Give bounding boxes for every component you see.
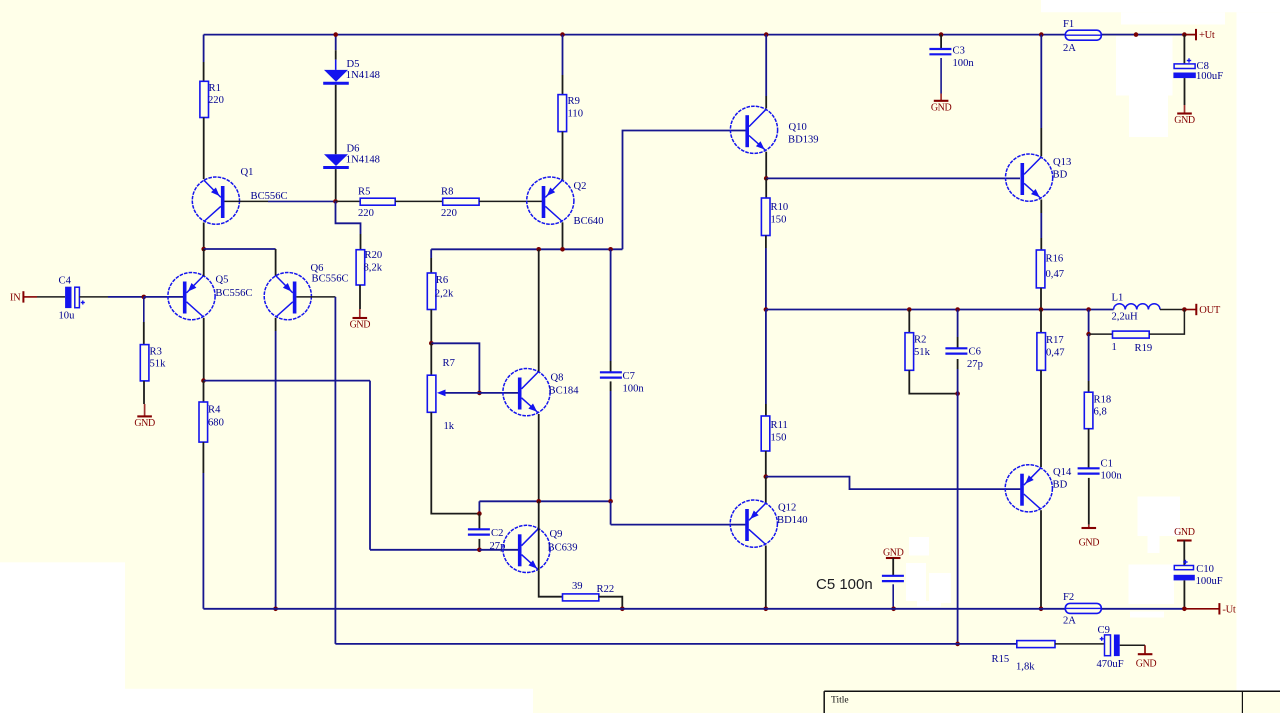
diode D5 xyxy=(335,35,337,51)
wire -Ut rail after F2 xyxy=(1101,608,1184,610)
wire Q9 emitter to R22 xyxy=(539,571,563,597)
node Q9 collector xyxy=(536,499,541,504)
pin R10 top xyxy=(765,178,767,198)
svg-text:R19: R19 xyxy=(1135,343,1153,354)
svg-text:Q12: Q12 xyxy=(778,503,796,514)
svg-text:150: 150 xyxy=(771,433,787,444)
resistor R5 xyxy=(360,198,395,205)
wire node to R5 xyxy=(336,200,361,202)
svg-text:BD: BD xyxy=(1053,480,1068,491)
capacitor C7 xyxy=(610,249,612,361)
node R11/Q12 emitter xyxy=(764,474,769,479)
node C2 bottom / Q9 base wire xyxy=(477,548,482,553)
node R19/R18 xyxy=(1086,332,1091,337)
wire R19 left xyxy=(1089,333,1113,335)
resistor R16 xyxy=(1036,250,1045,288)
node input/R3 xyxy=(142,295,147,300)
wire Q6 collector top xyxy=(275,249,277,276)
svg-text:1: 1 xyxy=(1112,342,1117,353)
svg-text:-Ut: -Ut xyxy=(1222,604,1235,615)
wire Q14 collector down xyxy=(1040,510,1042,609)
wire Q1/Q5 node to Q6 xyxy=(204,248,276,250)
wire Q8 emitter down xyxy=(538,414,540,501)
wire Q2 emitter down to VAS rail xyxy=(562,222,564,249)
white patch below top-right margin xyxy=(1121,12,1225,24)
svg-text:BD: BD xyxy=(1053,170,1068,181)
svg-text:100n: 100n xyxy=(953,58,975,69)
svg-text:Q5: Q5 xyxy=(216,275,229,286)
wire top rail right of F1 xyxy=(1102,34,1197,36)
port OUT xyxy=(1195,304,1197,315)
wire R11 bottom xyxy=(765,451,767,477)
wire Q12 emitter up xyxy=(765,477,767,503)
wire pot wiper xyxy=(444,392,479,394)
svg-text:R18: R18 xyxy=(1094,395,1112,406)
svg-text:R10: R10 xyxy=(771,202,789,213)
ground below C1 xyxy=(1088,525,1090,528)
node VAS/C7 xyxy=(608,247,613,252)
transistor Q1 xyxy=(192,177,239,224)
ground below R20 xyxy=(359,309,361,318)
svg-text:BD139: BD139 xyxy=(788,135,819,146)
wire R2 bottom xyxy=(909,370,957,393)
pin R6 bottom xyxy=(430,310,432,344)
svg-text:R1: R1 xyxy=(209,83,221,94)
resistor R2 xyxy=(908,310,910,333)
pin R20 top xyxy=(360,234,362,250)
wire R7 bottom xyxy=(431,412,479,513)
wire Q13 collector up xyxy=(1040,35,1042,128)
resistor R8 xyxy=(443,198,479,205)
wire Q1 base to node A xyxy=(225,200,269,202)
ground below C8 xyxy=(1184,105,1186,114)
node wiper/Q8 base xyxy=(477,391,482,396)
capacitor C8 xyxy=(1183,35,1185,64)
svg-text:D5: D5 xyxy=(347,59,360,70)
svg-text:Q13: Q13 xyxy=(1053,157,1071,168)
node D6/R5/R20/Q1 base xyxy=(333,199,338,204)
wire R6 node to wiper column xyxy=(431,343,479,393)
white patch above C8 GND xyxy=(1129,96,1168,138)
wire R17 bottom to Q14 xyxy=(1040,370,1042,467)
svg-text:39: 39 xyxy=(572,581,583,592)
node OUT/C6 xyxy=(955,307,960,312)
wire -Ut port lead xyxy=(1184,608,1219,610)
capacitor C3 xyxy=(940,35,942,49)
pin R1 bottom to Q1 xyxy=(203,118,205,180)
pin C7 bottom xyxy=(610,381,612,391)
white patch bottom left xyxy=(0,562,125,713)
resistor R22 xyxy=(563,594,599,601)
wire to Q9 base xyxy=(479,549,519,551)
resistor R17 xyxy=(1040,310,1042,333)
junction dot rail at C8 xyxy=(1182,32,1187,37)
white blob above C10 xyxy=(1138,497,1181,537)
wire Q5 collector node right xyxy=(204,380,371,382)
wire Q8 base xyxy=(479,392,518,394)
node OUT rail left xyxy=(764,307,769,312)
wire R8 to Q2 base xyxy=(479,200,545,202)
svg-text:R17: R17 xyxy=(1046,335,1064,346)
svg-text:F1: F1 xyxy=(1063,19,1074,30)
inductor L1 xyxy=(1114,304,1160,310)
resistor R6 xyxy=(427,273,436,310)
transistor Q5 xyxy=(168,273,215,320)
white spot behind C5 text xyxy=(825,574,838,593)
resistor R11 xyxy=(761,416,770,451)
wire Q5 collector down xyxy=(203,318,205,381)
svg-text:C9: C9 xyxy=(1098,625,1110,636)
resistor R10 xyxy=(761,198,770,236)
svg-text:R8: R8 xyxy=(441,187,453,198)
wire R16 bottom to OUT rail xyxy=(1040,288,1042,310)
wire C4 to input node xyxy=(79,296,108,298)
svg-text:6,8: 6,8 xyxy=(1094,407,1107,418)
wire Q9 collector up xyxy=(538,501,540,571)
transistor Q12 xyxy=(730,500,777,547)
svg-text:51k: 51k xyxy=(914,347,931,358)
svg-text:1N4148: 1N4148 xyxy=(346,155,380,166)
svg-text:GND: GND xyxy=(134,418,155,429)
svg-text:220: 220 xyxy=(358,208,374,219)
ground below R3 xyxy=(144,404,146,416)
capacitor C10 xyxy=(1174,566,1193,570)
junction dot top rail at D5 xyxy=(333,32,338,37)
resistor R1 xyxy=(200,81,209,117)
wire R6 top corner xyxy=(430,249,432,258)
svg-text:R20: R20 xyxy=(365,250,383,261)
wire R1 top xyxy=(203,35,205,62)
svg-text:2,2k: 2,2k xyxy=(435,289,454,300)
svg-text:R4: R4 xyxy=(208,405,221,416)
svg-text:BC556C: BC556C xyxy=(215,288,252,299)
node Q14 on -Ut rail xyxy=(1039,607,1044,612)
pin D6 bottom xyxy=(335,169,337,199)
svg-text:150: 150 xyxy=(771,215,787,226)
svg-text:1,8k: 1,8k xyxy=(1016,662,1035,673)
svg-text:L1: L1 xyxy=(1112,293,1124,304)
wire R10 bottom to OUT rail xyxy=(765,236,767,249)
diode D6 xyxy=(324,154,348,166)
svg-text:OUT: OUT xyxy=(1199,305,1221,316)
node feedback/rail2 xyxy=(955,642,960,647)
svg-text:C6: C6 xyxy=(969,347,981,358)
svg-text:C5 100n: C5 100n xyxy=(816,576,873,593)
wire IN lead xyxy=(23,296,37,298)
capacitor C6 xyxy=(957,310,959,338)
white margin top right xyxy=(1041,0,1280,12)
node C5 on -Ut rail xyxy=(891,607,896,612)
wire OUT port lead xyxy=(1184,309,1195,311)
wire to Q12 base xyxy=(611,524,746,526)
svg-text:R2: R2 xyxy=(914,335,926,346)
svg-text:680: 680 xyxy=(208,418,224,429)
svg-text:C4: C4 xyxy=(59,276,72,287)
wire Q13 emitter down xyxy=(1040,200,1042,214)
wire Q10 collector up xyxy=(765,35,767,96)
ground right of C9 xyxy=(1144,645,1146,654)
capacitor C2 xyxy=(468,528,490,530)
pin R3 bottom xyxy=(143,381,145,404)
svg-text:R6: R6 xyxy=(436,275,448,286)
wire R19 branch left xyxy=(1088,310,1090,335)
pin C8 bottom xyxy=(1184,78,1186,105)
resistor R4 xyxy=(199,402,208,442)
white patch right of F1 xyxy=(1116,37,1173,96)
svg-text:100uF: 100uF xyxy=(1196,576,1223,587)
capacitor C5 xyxy=(882,575,904,577)
svg-text:220: 220 xyxy=(208,95,224,106)
svg-text:C7: C7 xyxy=(623,371,635,382)
svg-text:F2: F2 xyxy=(1063,592,1074,603)
svg-text:Q8: Q8 xyxy=(551,373,564,384)
pin R7 top xyxy=(430,343,432,375)
wire Q6 base right xyxy=(296,296,335,298)
resistor R3 xyxy=(140,345,149,381)
pin C5 bottom xyxy=(892,584,894,609)
svg-text:GND: GND xyxy=(931,102,952,113)
resistor R18 xyxy=(1088,334,1090,381)
wire Q8 collector up xyxy=(538,249,540,371)
pin R3 top xyxy=(143,322,145,345)
svg-text:0,47: 0,47 xyxy=(1046,269,1065,280)
resistor R9 xyxy=(562,35,564,75)
node OUT/L1-R19-R18 xyxy=(1086,307,1091,312)
OUT rail xyxy=(766,309,1114,311)
node C6 bottom/R2 xyxy=(955,391,960,396)
svg-text:2A: 2A xyxy=(1063,43,1076,54)
node Q6 collector on -Ut rail xyxy=(273,607,278,612)
svg-text:R9: R9 xyxy=(568,96,580,107)
transistor Q6 xyxy=(264,273,311,320)
node VAS/Q2 xyxy=(560,247,565,252)
white blob right of C5 xyxy=(929,573,951,603)
node Q5 collector / R4 xyxy=(201,378,206,383)
svg-text:51k: 51k xyxy=(150,359,167,370)
junction dot top rail at Q10 xyxy=(764,32,769,37)
-Ut rail xyxy=(203,608,1065,610)
wire R4 bottom to -Ut rail xyxy=(202,442,204,473)
svg-text:Q2: Q2 xyxy=(574,181,587,192)
node C10 on -Ut rail xyxy=(1182,607,1187,612)
svg-text:+Ut: +Ut xyxy=(1199,30,1215,41)
ground below C3 xyxy=(940,94,942,101)
svg-text:GND: GND xyxy=(350,320,371,331)
pin R4 top xyxy=(203,381,205,402)
transistor Q10 xyxy=(730,106,777,153)
wire R19 right up xyxy=(1149,310,1184,335)
svg-text:10u: 10u xyxy=(59,311,76,322)
svg-text:GND: GND xyxy=(1174,115,1195,126)
junction dot top rail at C3 xyxy=(939,32,944,37)
node R6/R7 xyxy=(429,341,434,346)
svg-text:100uF: 100uF xyxy=(1196,71,1223,82)
pin C2 bottom xyxy=(478,539,480,550)
wire +Ut port lead xyxy=(1184,34,1195,36)
resistor R19 xyxy=(1113,331,1150,338)
svg-text:R16: R16 xyxy=(1046,254,1064,265)
node R22 / -Ut rail xyxy=(620,607,625,612)
white blob left of C5 xyxy=(909,537,929,556)
svg-text:BC556C: BC556C xyxy=(312,274,349,285)
svg-text:C2: C2 xyxy=(491,528,503,539)
wire R18 bottom to C1 xyxy=(1088,429,1090,469)
junction dot top rail at Q13 xyxy=(1039,32,1044,37)
svg-text:R7: R7 xyxy=(443,358,455,369)
resistor R20 xyxy=(356,250,365,285)
potentiometer R7 xyxy=(427,375,436,412)
pin R1 top xyxy=(203,62,205,81)
node OUT/R16-R17 xyxy=(1039,307,1044,312)
svg-text:Q1: Q1 xyxy=(241,167,254,178)
svg-text:2A: 2A xyxy=(1063,616,1076,627)
svg-text:GND: GND xyxy=(1174,527,1195,538)
wire VAS rail up to Q10 base xyxy=(623,131,746,250)
svg-text:R5: R5 xyxy=(358,187,370,198)
wire to Q13 base xyxy=(766,177,1020,179)
port -Ut xyxy=(1218,603,1220,614)
pin R9 bottom to Q2 xyxy=(562,132,564,181)
pin R6 top xyxy=(430,258,432,273)
svg-text:IN: IN xyxy=(10,293,21,304)
wire Q6 collector down xyxy=(275,318,277,331)
pin C10 bottom xyxy=(1183,580,1185,608)
svg-text:GND: GND xyxy=(883,547,904,558)
pin C2 top xyxy=(478,514,480,530)
node OUT port/L1/R19 xyxy=(1182,307,1187,312)
port IN xyxy=(22,291,24,302)
svg-text:Title: Title xyxy=(831,696,849,706)
junction dot top rail at R9 xyxy=(560,32,565,37)
wire L1 right xyxy=(1160,309,1184,311)
wire D5-D6 xyxy=(335,85,337,155)
wire Q12 collector down xyxy=(765,546,767,609)
pot wiper arrow xyxy=(437,390,446,397)
svg-text:220: 220 xyxy=(441,208,457,219)
svg-text:BC184: BC184 xyxy=(549,386,580,397)
wire R20 branch xyxy=(336,201,361,234)
svg-text:8,2k: 8,2k xyxy=(364,263,383,274)
svg-text:R15: R15 xyxy=(992,654,1010,665)
wire driver rail corner to C2 xyxy=(478,501,480,513)
svg-text:100n: 100n xyxy=(1101,471,1123,482)
wire feedback down to rail2 xyxy=(957,394,959,644)
svg-text:Q6: Q6 xyxy=(311,263,324,274)
resistor R15 xyxy=(1017,641,1055,648)
svg-text:0,47: 0,47 xyxy=(1046,348,1065,359)
white margin right column xyxy=(1237,12,1280,691)
svg-text:BC639: BC639 xyxy=(548,543,578,554)
transistor Q9 xyxy=(503,525,550,572)
node Q10 emitter / Q13 base xyxy=(764,176,769,181)
svg-text:R22: R22 xyxy=(597,584,615,595)
svg-text:GND: GND xyxy=(1136,659,1157,670)
svg-text:27p: 27p xyxy=(967,359,983,370)
svg-text:470uF: 470uF xyxy=(1097,659,1124,670)
svg-text:Q14: Q14 xyxy=(1053,467,1072,478)
wire R3 top xyxy=(143,297,145,322)
wire IN to C4 xyxy=(37,296,65,298)
feedback rail2 xyxy=(335,643,1016,645)
svg-text:100n: 100n xyxy=(623,384,645,395)
svg-text:110: 110 xyxy=(568,109,584,120)
wire OUT rail to R11 xyxy=(765,310,767,405)
wire R5-R8 xyxy=(395,200,443,202)
pin C1 bottom xyxy=(1088,478,1090,525)
svg-text:1k: 1k xyxy=(444,421,455,432)
node Q12 on -Ut rail xyxy=(764,607,769,612)
wire R22 to -Ut rail xyxy=(599,597,623,609)
white blob left of C10 xyxy=(1129,565,1175,605)
svg-text:D6: D6 xyxy=(347,144,360,155)
wire R11 node to Q14 base xyxy=(766,477,1021,490)
wire down to Q9 base level xyxy=(369,381,371,550)
wire Q6 base down (feedback) xyxy=(334,297,336,644)
capacitor C1 xyxy=(1078,467,1100,469)
white strip bottom xyxy=(0,689,533,713)
wire Q12 base branch down xyxy=(610,501,612,524)
wire Q5 emitter top xyxy=(203,249,205,276)
capacitor C9 xyxy=(1105,635,1111,656)
fuse F2 xyxy=(1065,603,1101,613)
junction dot rail after F1 xyxy=(1134,32,1139,37)
pin R20 bottom xyxy=(359,285,361,309)
svg-text:C10: C10 xyxy=(1196,564,1214,575)
fuse F1 xyxy=(1065,30,1101,40)
wire Q10 emitter down xyxy=(765,152,767,179)
transistor Q8 xyxy=(503,369,550,416)
svg-text:GND: GND xyxy=(1079,538,1100,549)
node OUT/R2 xyxy=(907,307,912,312)
svg-text:R3: R3 xyxy=(150,347,162,358)
svg-text:1N4148: 1N4148 xyxy=(346,70,380,81)
node VAS/Q8 collector xyxy=(536,247,541,252)
transistor Q13 xyxy=(1006,154,1053,201)
svg-text:C3: C3 xyxy=(953,46,965,57)
transistor Q2 xyxy=(527,177,574,224)
wire C9 right xyxy=(1120,644,1145,646)
svg-text:BC640: BC640 xyxy=(574,216,604,227)
node Q1/Q5 junction xyxy=(201,247,206,252)
node R7 bottom/C2 top xyxy=(477,511,482,516)
node C7 bottom xyxy=(608,499,613,504)
transistor Q14 xyxy=(1005,465,1052,512)
svg-text:BD140: BD140 xyxy=(777,515,808,526)
title block xyxy=(824,690,1280,692)
svg-text:Q10: Q10 xyxy=(789,122,807,133)
capacitor C4 xyxy=(65,287,71,308)
svg-text:C1: C1 xyxy=(1101,459,1113,470)
port +Ut xyxy=(1195,29,1197,40)
svg-text:BC556C: BC556C xyxy=(251,191,288,202)
driver rail (y=501) xyxy=(479,500,610,502)
wire R15 to C9 xyxy=(1055,643,1104,645)
wire +V top rail xyxy=(204,34,1065,36)
wire Q1 emitter down xyxy=(203,223,205,250)
svg-text:Q9: Q9 xyxy=(550,529,563,540)
svg-text:2,2uH: 2,2uH xyxy=(1112,312,1139,323)
svg-text:R11: R11 xyxy=(771,420,788,431)
VAS rail (y=249) xyxy=(431,248,622,250)
wire to Q9 base xyxy=(370,549,479,551)
wire input node to Q5 base xyxy=(144,296,183,298)
